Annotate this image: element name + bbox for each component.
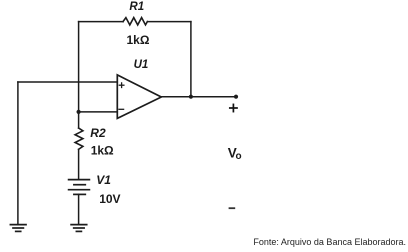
wire output: [161, 96, 236, 98]
wire inverting input: [79, 111, 118, 113]
svg-text:10V: 10V: [99, 192, 120, 206]
wire R2 top lead: [78, 112, 80, 128]
battery V1: [69, 180, 90, 195]
svg-text:U1: U1: [134, 59, 149, 71]
svg-text:1kΩ: 1kΩ: [127, 33, 150, 47]
wire R2 bottom lead: [78, 149, 80, 179]
caption source text: [253, 237, 406, 247]
ground middle: [71, 225, 87, 232]
wire left rail vertical: [17, 82, 19, 224]
svg-text:Vo: Vo: [228, 145, 242, 162]
svg-text:R2: R2: [90, 126, 106, 140]
resistor R2: [75, 128, 83, 149]
wire top feedback left segment: [79, 21, 123, 23]
node junction inverting input: [77, 110, 81, 114]
op-amp minus input sign: [119, 108, 124, 110]
svg-text:R1: R1: [129, 1, 144, 13]
node output terminal: [234, 95, 238, 99]
wire feedback left vertical: [78, 22, 80, 112]
wire feedback right vertical: [190, 22, 192, 97]
op-amp U1 triangle: [117, 75, 161, 119]
label - output polarity: [230, 207, 235, 209]
resistor R1: [123, 18, 147, 25]
label + output polarity: [230, 104, 237, 111]
ground left: [10, 225, 26, 232]
op-amp plus input sign: [119, 83, 124, 88]
wire top feedback right segment: [147, 21, 191, 23]
wire battery to ground: [78, 194, 80, 224]
svg-text:V1: V1: [96, 173, 111, 187]
wire noninverting input: [18, 81, 117, 83]
node junction output feedback: [189, 95, 193, 99]
svg-text:1kΩ: 1kΩ: [91, 144, 114, 158]
